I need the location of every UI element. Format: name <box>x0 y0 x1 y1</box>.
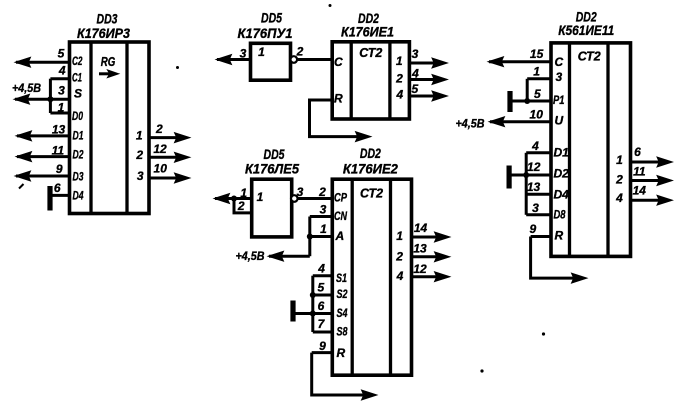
register DD3 К176ИР3 body <box>70 42 150 214</box>
svg-text:3: 3 <box>532 201 539 215</box>
inversion bubble DD5 output <box>291 56 298 63</box>
svg-text:S: S <box>74 87 82 101</box>
wire CN pin 3 stub <box>310 215 333 218</box>
wire P1 pin 5 stub <box>527 100 551 103</box>
svg-text:2: 2 <box>318 185 326 199</box>
wire tie down to pin 2 <box>234 199 252 213</box>
wire ИЕ11 output pin 11 <box>631 176 672 185</box>
ground common bar at DD3 pin 6 <box>47 186 52 211</box>
svg-text:10: 10 <box>154 162 168 176</box>
svg-text:D3: D3 <box>73 170 84 184</box>
counter DD2 К561ИЕ11 body <box>551 43 631 257</box>
svg-text:1: 1 <box>240 186 247 200</box>
DD2 ИЕ2 input labels CP CN A S1 S2 S4 S8 R <box>334 191 348 361</box>
svg-text:4: 4 <box>615 191 623 205</box>
svg-text:12: 12 <box>413 262 427 276</box>
DD3 input labels C2 C1 S D0 D1 D2 D3 D4 <box>72 54 84 202</box>
svg-text:1: 1 <box>320 222 327 236</box>
counter DD2 К561ИЕ11 designator label <box>558 9 614 39</box>
svg-text:P1: P1 <box>553 93 565 107</box>
wire A pin 1 stub <box>310 235 333 238</box>
svg-text:1: 1 <box>396 229 403 243</box>
svg-text:R: R <box>555 229 564 243</box>
DD2 ИЕ1 input labels C R <box>334 55 343 106</box>
junction at A stub <box>307 234 313 240</box>
svg-text:S2: S2 <box>337 287 348 301</box>
svg-text:+4,5В: +4,5В <box>12 81 41 95</box>
ground common bar at S group <box>290 301 295 322</box>
svg-text:5: 5 <box>411 82 418 96</box>
svg-text:U: U <box>555 114 564 128</box>
svg-text:К176ИЕ1: К176ИЕ1 <box>341 24 394 40</box>
counter DD2 К176ИЕ2 body <box>332 179 411 375</box>
svg-text:R: R <box>334 91 343 105</box>
svg-text:1: 1 <box>258 45 265 59</box>
svg-text:2: 2 <box>135 148 143 162</box>
svg-text:DD2: DD2 <box>360 145 381 161</box>
svg-text:D1: D1 <box>554 146 570 160</box>
buffer DD5 К176ПУ1 body <box>251 43 291 80</box>
svg-text:10: 10 <box>530 108 544 122</box>
counter DD2 designator label <box>341 10 394 40</box>
svg-text:4: 4 <box>411 67 419 81</box>
wire common to S bus <box>293 312 313 315</box>
svg-text:2: 2 <box>237 199 245 213</box>
wire S4 pin 6 stub <box>313 312 333 315</box>
svg-text:11: 11 <box>52 144 65 158</box>
svg-text:6: 6 <box>54 181 61 195</box>
svg-text:4: 4 <box>58 63 66 77</box>
wire common to D bus <box>509 174 526 177</box>
svg-text:1: 1 <box>257 190 264 204</box>
svg-text:R: R <box>337 346 346 360</box>
svg-text:5: 5 <box>534 87 541 101</box>
svg-text:C: C <box>334 55 343 69</box>
wire S8 pin 7 stub <box>313 331 333 334</box>
wire DD2 ИЕ1 output pin 4 <box>409 75 446 84</box>
wire ИЕ11 output pin 14 <box>631 196 672 205</box>
wire DD2 ИЕ2 output pin 14 <box>412 233 450 242</box>
svg-text:14: 14 <box>633 183 647 197</box>
wire bus tying pins 4 3 1 <box>49 79 52 113</box>
svg-text:СТ2: СТ2 <box>578 50 601 64</box>
wire DD2 ИЕ2 output pin 12 <box>412 272 450 281</box>
svg-text:13: 13 <box>527 180 541 194</box>
junction at D2 stub <box>523 172 529 178</box>
gate DD5 designator label <box>245 146 299 176</box>
wire D4 pin 13 stub <box>526 193 551 196</box>
wire DD2 ИЕ1 output pin 5 <box>409 92 446 101</box>
wire DD3 output pin 12 <box>149 153 189 162</box>
wire common to P1 <box>510 100 527 103</box>
wire pin 4 C1 stub <box>50 77 69 80</box>
wire S2 pin 5 stub <box>313 294 333 297</box>
register DD3 designator label <box>77 11 130 42</box>
DD3 output weight labels 1 2 3 <box>135 128 144 183</box>
wire DD5 input pin 3 <box>217 55 251 64</box>
wire U pin 10 input <box>490 117 551 126</box>
svg-text:К176ЛЕ5: К176ЛЕ5 <box>245 160 299 176</box>
DD2 ИЕ1 output weight labels 1 2 4 <box>395 54 403 101</box>
svg-text:15: 15 <box>530 47 544 61</box>
svg-text:S1: S1 <box>336 271 347 285</box>
ground common bar at D group <box>507 166 512 189</box>
svg-text:2: 2 <box>395 72 403 86</box>
svg-text:S4: S4 <box>337 306 348 320</box>
wire S1 pin 4 stub <box>313 274 333 277</box>
svg-text:4: 4 <box>395 87 403 101</box>
wire bus tying S1 S2 S4 S8 <box>311 276 314 332</box>
svg-text:13: 13 <box>413 241 427 255</box>
svg-text:3: 3 <box>137 169 144 183</box>
junction at S4 <box>310 311 316 317</box>
wire bus tying CN A and +4,5V <box>308 217 311 257</box>
wire R pin 9 reset run <box>531 237 586 283</box>
svg-text:C1: C1 <box>72 70 82 84</box>
svg-text:RG: RG <box>101 55 116 69</box>
svg-text:2: 2 <box>155 122 163 136</box>
svg-text:3: 3 <box>412 47 419 61</box>
svg-text:2: 2 <box>395 250 403 264</box>
wire ЛЕ5 output to counter CP <box>298 197 333 200</box>
svg-text:5: 5 <box>58 47 65 61</box>
counter DD2 designator label <box>343 145 398 176</box>
svg-text:D8: D8 <box>554 208 566 222</box>
svg-text:К176ИР3: К176ИР3 <box>77 25 130 41</box>
svg-text:СТ2: СТ2 <box>360 187 383 201</box>
svg-text:3: 3 <box>320 203 327 217</box>
svg-text:4: 4 <box>531 139 539 153</box>
svg-text:3: 3 <box>240 46 247 60</box>
svg-text:A: A <box>335 229 345 243</box>
DD2 ИЕ2 output weight labels 1 2 4 <box>395 229 403 283</box>
svg-text:D2: D2 <box>73 148 84 162</box>
svg-text:6: 6 <box>318 299 325 313</box>
wire D1 pin 4 stub <box>526 151 551 154</box>
wire DD5 ЛЕ5 input pin 1 <box>215 194 252 203</box>
stray ink tick <box>19 184 24 189</box>
svg-text:6: 6 <box>634 145 641 159</box>
svg-text:2: 2 <box>615 173 623 187</box>
wire pin 9 D input <box>16 172 70 181</box>
svg-text:CP: CP <box>334 191 348 205</box>
wire pin 3 S input with +4,5V feed <box>15 95 70 104</box>
svg-text:9: 9 <box>56 162 63 176</box>
counter DD2 К176ИЕ1 body <box>332 42 409 119</box>
svg-text:К561ИЕ11: К561ИЕ11 <box>558 22 614 38</box>
svg-text:9: 9 <box>319 339 326 353</box>
stray ink specks <box>176 4 545 373</box>
svg-text:К176ИЕ2: К176ИЕ2 <box>343 160 398 176</box>
svg-text:+4,5В: +4,5В <box>456 117 485 131</box>
wire pin 13 D input <box>17 131 70 140</box>
inversion bubble ЛЕ5 output <box>291 195 298 202</box>
wire bus tying D pins <box>525 153 528 215</box>
svg-text:S8: S8 <box>337 325 348 339</box>
gate DD5 К176ЛЕ5 body <box>252 179 292 237</box>
svg-text:1: 1 <box>136 128 143 142</box>
wire DD3 output pin 10 <box>149 174 189 183</box>
wire DD3 output pin 2 <box>149 133 189 142</box>
wire pin 1 D0 stub <box>50 112 69 115</box>
svg-text:+4,5В: +4,5В <box>236 249 265 263</box>
wire D8 pin 3 stub <box>526 213 551 216</box>
wire ИЕ11 output pin 6 <box>631 158 672 167</box>
svg-text:4: 4 <box>396 269 404 283</box>
wire З pin 1 stub <box>527 77 551 80</box>
wire D2 pin 12 stub <box>526 174 551 177</box>
svg-text:D4: D4 <box>554 188 570 202</box>
wire bus tying pins 1 5 <box>526 79 529 101</box>
svg-text:D4: D4 <box>73 189 84 203</box>
svg-text:D0: D0 <box>72 109 83 123</box>
svg-text:11: 11 <box>633 165 646 179</box>
svg-text:1: 1 <box>533 65 540 79</box>
svg-text:D1: D1 <box>73 129 84 143</box>
svg-text:2: 2 <box>296 45 304 59</box>
svg-text:DD5: DD5 <box>261 10 282 26</box>
ИЕ11 output weight labels 1 2 4 <box>615 153 623 205</box>
svg-text:14: 14 <box>414 221 428 235</box>
buffer DD5 designator label <box>238 10 293 41</box>
svg-text:4: 4 <box>317 261 325 275</box>
svg-text:3: 3 <box>58 84 65 98</box>
wire R pin 9 reset run <box>312 353 376 400</box>
wire C pin 15 input <box>489 57 551 66</box>
wire DD2 ИЕ2 output pin 13 <box>412 252 450 261</box>
ИЕ11 input labels C 3 P1 U D1 D2 D4 D8 R <box>553 55 569 243</box>
svg-text:12: 12 <box>527 160 541 174</box>
wire DD2 ИЕ1 output pin 3 <box>409 59 446 68</box>
junction tie of gate inputs <box>231 196 237 202</box>
junction at S2 <box>310 292 316 298</box>
svg-text:13: 13 <box>52 122 66 136</box>
svg-text:C2: C2 <box>72 54 83 68</box>
svg-text:1: 1 <box>616 153 623 167</box>
junction pins 4-3-1 bus <box>47 96 53 102</box>
svg-text:1: 1 <box>58 101 65 115</box>
wire DD5 output to DD2 C input <box>297 58 332 61</box>
svg-text:C: C <box>555 55 564 69</box>
ground common bar at P1 <box>507 91 512 112</box>
svg-text:5: 5 <box>318 280 325 294</box>
wire pin 11 D input <box>17 152 70 161</box>
wire pin 6 D4 stub to common <box>51 194 70 197</box>
junction at P1 stub <box>524 98 530 104</box>
svg-text:СТ2: СТ2 <box>359 46 382 60</box>
register DD3 function label RG with shift arrow <box>99 55 118 77</box>
svg-text:12: 12 <box>153 142 167 156</box>
svg-text:К176ПУ1: К176ПУ1 <box>238 25 293 41</box>
svg-text:9: 9 <box>530 222 537 236</box>
wire pin 5 C2 input <box>16 58 70 67</box>
wire DD2 ИЕ1 R reset run <box>310 100 371 141</box>
wire +4,5V feed <box>269 252 310 261</box>
svg-text:CN: CN <box>334 209 347 223</box>
svg-text:1: 1 <box>396 54 403 68</box>
svg-text:D2: D2 <box>554 167 570 181</box>
svg-text:3: 3 <box>556 70 563 84</box>
